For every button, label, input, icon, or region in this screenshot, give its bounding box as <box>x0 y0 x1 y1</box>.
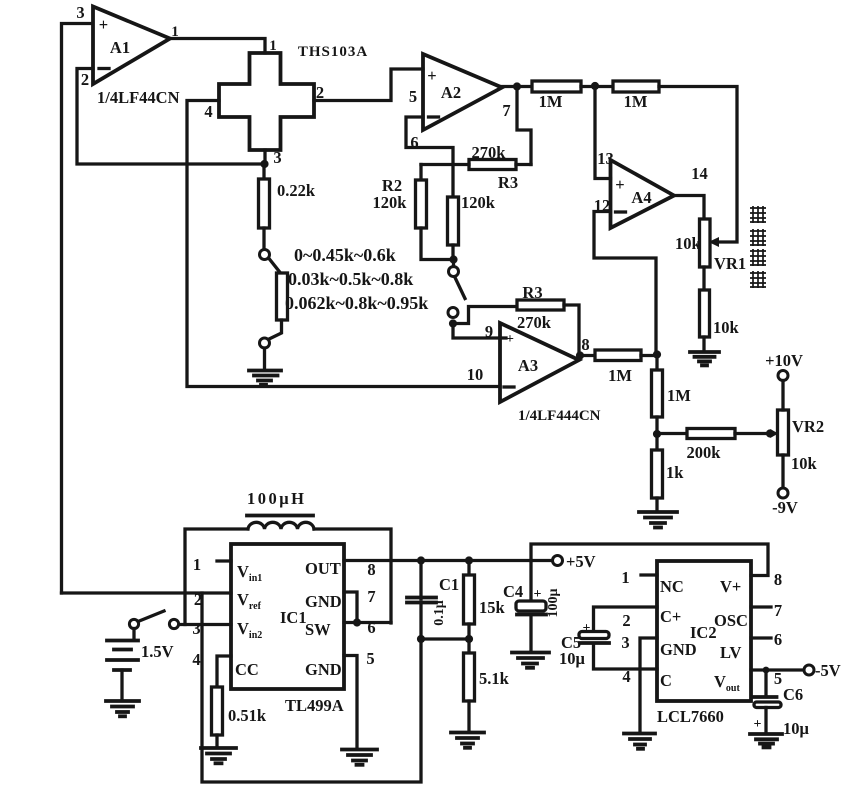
label 1M <box>624 92 648 111</box>
svg-text:+: + <box>427 66 436 85</box>
svg-text:OUT: OUT <box>305 559 341 578</box>
svg-text:7: 7 <box>774 601 782 620</box>
pin 8 label <box>774 570 782 589</box>
pin 4 wire and label <box>192 650 231 687</box>
svg-text:TL499A: TL499A <box>285 696 344 715</box>
svg-text:1M: 1M <box>608 366 632 385</box>
wire THS103A pin4 to A3 pin10 <box>187 101 500 387</box>
node junction pin3/feedback <box>260 160 268 168</box>
wire A2 feedback to R3 <box>517 90 531 165</box>
label C+ <box>660 607 681 626</box>
wire ground-return loop <box>202 593 421 782</box>
terminal +10V <box>765 351 803 410</box>
label R3 <box>522 283 542 302</box>
svg-text:1M: 1M <box>667 386 691 405</box>
label 15k <box>479 598 506 617</box>
switch arm to tapped resistor <box>269 259 281 274</box>
svg-text:5: 5 <box>409 87 417 106</box>
svg-text:8: 8 <box>774 570 782 589</box>
resistor 1M first <box>532 81 613 92</box>
resistor 120k second <box>448 197 459 256</box>
op-amp A1 <box>93 7 170 85</box>
svg-text:100μ: 100μ <box>546 588 561 617</box>
wire Vref rail to IC1 pin2 <box>62 591 232 594</box>
resistor 1k <box>652 434 663 511</box>
resistor R3 270k (A2 feedback) <box>421 160 531 170</box>
ground below battery <box>106 701 139 716</box>
resistor 1M vertical <box>652 355 663 435</box>
svg-text:GND: GND <box>305 592 342 611</box>
svg-text:V+: V+ <box>720 577 741 596</box>
svg-text:A4: A4 <box>631 188 651 207</box>
label Vref <box>237 590 262 612</box>
svg-text:200k: 200k <box>687 443 722 462</box>
label GND <box>305 660 342 679</box>
svg-text:4: 4 <box>204 102 212 121</box>
label 0.22k <box>277 181 316 200</box>
inductor 100uH <box>247 516 314 530</box>
svg-text:3: 3 <box>621 633 629 652</box>
label 1/4LF444CN <box>518 408 601 424</box>
svg-text:THS103A: THS103A <box>298 44 368 60</box>
svg-text:5.1k: 5.1k <box>479 669 510 688</box>
label 1k <box>666 463 684 482</box>
svg-text:-9V: -9V <box>772 498 798 517</box>
svg-text:A3: A3 <box>518 356 538 375</box>
svg-text:6: 6 <box>774 630 782 649</box>
pin 1 label <box>171 24 179 40</box>
svg-text:5: 5 <box>366 649 374 668</box>
svg-text:C: C <box>660 671 672 690</box>
svg-text:270k: 270k <box>517 313 552 332</box>
label CC <box>235 660 259 679</box>
svg-text:IC1: IC1 <box>280 608 307 627</box>
pin 3 label THS103A <box>273 148 281 167</box>
svg-text:1M: 1M <box>624 92 648 111</box>
svg-text:270k: 270k <box>472 143 507 162</box>
svg-text:120k: 120k <box>461 193 496 212</box>
capacitor C4 100u <box>516 561 546 652</box>
node switch top <box>449 255 457 263</box>
switch contact circle left <box>129 619 138 628</box>
label 270k <box>472 143 507 162</box>
wire A2 pin6 <box>406 117 453 197</box>
capacitor C6 10u <box>753 670 781 732</box>
wire THS103A pin2 to A2 pin5 <box>314 69 423 101</box>
label VR1 <box>714 254 746 273</box>
op-amp A4 <box>611 160 675 228</box>
pin 1 stub IC2 <box>621 568 657 587</box>
resistor 1M second <box>613 81 659 92</box>
pin 6 SW wire <box>344 618 391 637</box>
label TL499A <box>285 696 344 715</box>
svg-text:+: + <box>534 587 542 602</box>
svg-text:+: + <box>583 621 591 636</box>
pin 3 label <box>76 3 84 22</box>
svg-text:3: 3 <box>192 619 200 638</box>
label 0.062k~0.8k~0.95k <box>285 293 428 313</box>
pin 8 label <box>581 335 589 354</box>
svg-text:1: 1 <box>621 568 629 587</box>
svg-text:10k: 10k <box>675 234 702 253</box>
label 0.51k <box>228 706 267 725</box>
node OUT/C1 <box>417 556 425 564</box>
label 0~0.45k~0.6k <box>294 245 396 265</box>
svg-text:7: 7 <box>367 587 375 606</box>
node 1M/200k/1k <box>653 430 661 438</box>
ground below pin5 <box>342 750 377 765</box>
label 10k (VR2) <box>791 454 818 473</box>
label 10u C6 <box>783 719 810 738</box>
pin 3 label <box>192 619 200 638</box>
label Vout <box>714 672 740 694</box>
ground below 0.51k <box>201 748 236 763</box>
resistor 0.22k <box>259 164 270 250</box>
wire switch to IC1 pin3 <box>179 623 231 626</box>
svg-text:LV: LV <box>720 643 741 662</box>
wire C1 to divider node <box>421 637 469 640</box>
wire A4 pin13 <box>595 86 611 179</box>
label 1.5V <box>141 642 174 661</box>
wire +5V top line to IC2 V+ <box>531 544 768 576</box>
node A2 output <box>513 82 521 90</box>
svg-text:CC: CC <box>235 660 259 679</box>
svg-text:-5V: -5V <box>815 661 841 680</box>
svg-text:GND: GND <box>660 640 697 659</box>
node OUT/15k <box>465 556 473 564</box>
label V+ <box>720 577 741 596</box>
label NC <box>660 577 684 596</box>
switch arm <box>455 278 465 299</box>
wire A2 output <box>502 85 532 88</box>
label 10u C5 <box>559 649 586 668</box>
wire A1 output to THS103A pin1 <box>170 39 265 54</box>
label R2 <box>382 176 402 195</box>
terminal -5V <box>804 661 841 680</box>
svg-text:2: 2 <box>622 611 630 630</box>
ground below IC2 pin3 <box>624 734 655 749</box>
svg-text:A1: A1 <box>110 38 130 57</box>
label OUT <box>305 559 341 578</box>
svg-text:6: 6 <box>367 618 375 637</box>
svg-text:10: 10 <box>467 365 484 384</box>
svg-text:C6: C6 <box>783 685 803 704</box>
pin 12 label <box>594 196 611 215</box>
node C1 bottom <box>417 635 425 643</box>
resistor 0.51k <box>212 687 223 747</box>
resistor 15k <box>464 561 475 640</box>
pin 7 wire <box>344 587 376 623</box>
svg-text:VR1: VR1 <box>714 254 746 273</box>
svg-text:SW: SW <box>305 620 331 639</box>
wire A1 inverting feedback <box>77 69 265 165</box>
ground below C4 <box>512 653 549 668</box>
node below switch <box>449 319 457 327</box>
pin 2 label <box>194 590 202 609</box>
wire A4 pin12 to summing node <box>594 212 656 355</box>
wire A4 output to VR1 <box>674 196 704 220</box>
switch arm <box>138 611 164 622</box>
switch contact circle right <box>169 619 178 628</box>
arrowhead VR1 wiper <box>709 237 720 247</box>
svg-text:NC: NC <box>660 577 684 596</box>
label 1M <box>667 386 691 405</box>
label IC2 <box>690 623 717 642</box>
pin 7 stub <box>751 601 782 620</box>
resistor 200k <box>657 429 770 439</box>
label Vin2 <box>237 619 262 641</box>
switch contact circle upper <box>260 250 270 260</box>
svg-text:GND: GND <box>305 660 342 679</box>
pin 1 stub <box>193 555 231 574</box>
svg-text:1M: 1M <box>539 92 563 111</box>
wire to A3 pin9 <box>453 324 500 339</box>
label 10k (VR1) <box>675 234 702 253</box>
op-amp A2 <box>423 54 502 130</box>
switch contact circle upper (gain select) <box>449 263 459 277</box>
pin 2 label THS103A <box>316 83 324 102</box>
pin 4 label THS103A <box>204 102 212 121</box>
wire 1M to VR1 wiper <box>659 87 737 243</box>
pin 6 label <box>410 133 418 152</box>
svg-text:VR2: VR2 <box>792 417 824 436</box>
svg-text:OSC: OSC <box>714 611 748 630</box>
svg-text:R3: R3 <box>498 173 518 192</box>
label THS103A <box>298 44 368 60</box>
svg-text:1/4LF44CN: 1/4LF44CN <box>97 88 180 107</box>
svg-text:R3: R3 <box>522 283 542 302</box>
node A3 output <box>576 351 584 359</box>
potentiometer VR2 10k <box>778 410 789 455</box>
wire boost loop top/right <box>314 529 391 623</box>
svg-text:A2: A2 <box>441 83 461 102</box>
svg-text:C+: C+ <box>660 607 681 626</box>
switch contact circle lower <box>260 338 270 348</box>
node divider <box>465 635 473 643</box>
pin 8 OUT wire <box>344 560 553 579</box>
svg-text:0.51k: 0.51k <box>228 706 267 725</box>
label plus C6 <box>754 717 762 732</box>
label C <box>660 671 672 690</box>
svg-text:120k: 120k <box>373 193 408 212</box>
label R3 <box>498 173 518 192</box>
switch contact circle lower <box>448 308 458 318</box>
svg-text:10μ: 10μ <box>559 649 586 668</box>
IC U2 LCL7660 box <box>657 561 751 701</box>
resistor R2 120k <box>416 165 455 260</box>
label gain-adjust (Chinese) <box>750 206 766 288</box>
resistor 5.1k <box>464 639 475 731</box>
pin 2 wire to C5 <box>594 607 658 633</box>
svg-text:15k: 15k <box>479 598 506 617</box>
label C6 <box>783 685 803 704</box>
pin 1 label THS103A <box>269 38 277 54</box>
pin 4 label <box>622 667 630 686</box>
svg-text:0.22k: 0.22k <box>277 181 316 200</box>
label 0.1u vertical <box>432 600 447 626</box>
pin 13 label <box>597 149 614 168</box>
svg-text:9: 9 <box>485 322 493 341</box>
node pin7/SW <box>353 618 361 626</box>
battery 1.5V <box>107 629 138 701</box>
svg-text:4: 4 <box>192 650 200 669</box>
wire boost loop left/top <box>185 529 246 625</box>
svg-text:C1: C1 <box>439 575 459 594</box>
pin 3 wire to ground <box>621 633 657 732</box>
node VR2 wiper <box>766 429 774 437</box>
svg-text:5: 5 <box>774 669 782 688</box>
ground below C6 <box>750 734 782 747</box>
label C5 <box>561 633 581 652</box>
svg-text:0.062k~0.8k~0.95k: 0.062k~0.8k~0.95k <box>285 293 428 313</box>
pin 14 label <box>691 164 708 183</box>
label 100u vertical <box>546 588 561 617</box>
wire to R3 (A3 feedback) <box>453 307 517 324</box>
label GND <box>660 640 697 659</box>
label IC1 <box>280 608 307 627</box>
node summing junction <box>653 350 661 358</box>
label 270k <box>517 313 552 332</box>
label 0.03k~0.5k~0.8k <box>288 269 413 289</box>
label LV <box>720 643 741 662</box>
label GND <box>305 592 342 611</box>
svg-text:0.03k~0.5k~0.8k: 0.03k~0.5k~0.8k <box>288 269 413 289</box>
node between 1M resistors <box>591 82 599 90</box>
pin 9 label <box>485 322 493 341</box>
label plus C5 <box>583 621 591 636</box>
svg-text:10k: 10k <box>791 454 818 473</box>
svg-text:10μ: 10μ <box>783 719 810 738</box>
label 120k <box>461 193 496 212</box>
pin 2 label <box>81 70 89 89</box>
svg-text:1: 1 <box>193 555 201 574</box>
svg-text:8: 8 <box>581 335 589 354</box>
svg-text:LCL7660: LCL7660 <box>657 707 724 726</box>
svg-text:+: + <box>754 717 762 732</box>
terminal +5V <box>553 552 596 571</box>
label OSC <box>714 611 748 630</box>
resistor 10k below VR1 <box>700 290 710 351</box>
resistor tapped selectable <box>268 273 288 340</box>
ground below 1k <box>639 512 677 528</box>
resistor 1M (A3 output) <box>580 350 657 361</box>
svg-text:8: 8 <box>367 560 375 579</box>
ground below 5.1k <box>451 733 484 748</box>
svg-text:1/4LF444CN: 1/4LF444CN <box>518 408 601 424</box>
svg-text:2: 2 <box>81 70 89 89</box>
capacitor C1 0.1u <box>407 561 436 640</box>
pin 6 stub <box>751 630 782 649</box>
wire left rail (A1 pin3 to IC1 Vref) <box>62 24 93 594</box>
svg-text:4: 4 <box>622 667 630 686</box>
label plus C4 <box>534 587 542 602</box>
potentiometer VR1 10k <box>700 219 711 290</box>
label 5.1k <box>479 669 510 688</box>
label 1M <box>539 92 563 111</box>
svg-text:14: 14 <box>691 164 708 183</box>
capacitor C5 10u <box>579 632 657 670</box>
label 100uH <box>247 489 306 508</box>
arrowhead VR2 wiper <box>770 429 779 438</box>
svg-text:1k: 1k <box>666 463 684 482</box>
svg-text:3: 3 <box>273 148 281 167</box>
resistor R3 270k (A3 feedback) <box>517 300 579 352</box>
svg-text:C4: C4 <box>503 582 523 601</box>
svg-text:+10V: +10V <box>765 351 803 370</box>
wire to ground <box>263 348 266 370</box>
label Vin1 <box>237 562 262 584</box>
svg-text:13: 13 <box>597 149 614 168</box>
IC U1 TL499A box <box>231 544 344 689</box>
op-amp A3 <box>500 323 579 402</box>
ground below tapped resistor <box>249 371 281 385</box>
svg-text:+: + <box>99 15 108 34</box>
label C1 <box>439 575 459 594</box>
terminal -9V <box>772 455 798 517</box>
label 10k <box>713 318 740 337</box>
svg-text:+5V: +5V <box>566 552 596 571</box>
ground below 10k <box>690 352 719 365</box>
label C4 <box>503 582 523 601</box>
label 200k <box>687 443 722 462</box>
node C6 <box>763 667 770 674</box>
pin 7 label <box>502 101 510 120</box>
pin 5 wire to -5V <box>751 669 804 688</box>
svg-text:7: 7 <box>502 101 510 120</box>
THS103A bridge element <box>219 53 314 150</box>
svg-text:3: 3 <box>76 3 84 22</box>
label SW <box>305 620 331 639</box>
label VR2 <box>792 417 824 436</box>
svg-text:+: + <box>615 175 624 194</box>
svg-text:100μH: 100μH <box>247 489 306 508</box>
wire THS103A pin3 down <box>263 150 266 164</box>
svg-text:0.1μ: 0.1μ <box>432 600 447 626</box>
pin 5 wire <box>344 649 375 748</box>
label 120k (R2) <box>373 193 408 212</box>
label 1M <box>608 366 632 385</box>
pin 5 label <box>409 87 417 106</box>
label 1/4LF44CN <box>97 88 180 107</box>
svg-text:10k: 10k <box>713 318 740 337</box>
svg-text:0~0.45k~0.6k: 0~0.45k~0.6k <box>294 245 396 265</box>
pin 10 label <box>467 365 484 384</box>
label LCL7660 <box>657 707 724 726</box>
svg-text:1.5V: 1.5V <box>141 642 174 661</box>
